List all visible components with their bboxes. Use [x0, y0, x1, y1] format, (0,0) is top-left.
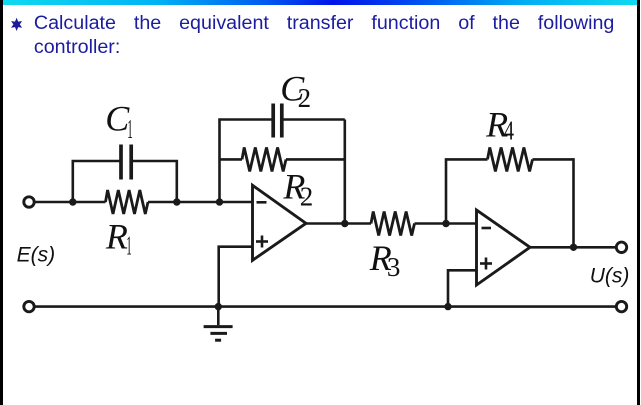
wire: E(s) terminal to R1 network [36, 201, 106, 204]
svg-text:2: 2 [300, 182, 314, 212]
wire: node C riser to R4 branch [446, 159, 488, 223]
node: U2 ground junction [444, 303, 451, 310]
wire: R2 branch right segment [286, 158, 345, 161]
wire: R2 branch left segment [220, 158, 243, 161]
ground bus wire [36, 305, 616, 308]
terminal: U(s) output open circle [616, 242, 626, 252]
title line 2 [34, 35, 120, 59]
U1 non-inverting pin marker [256, 236, 268, 248]
wire: feedback right riser down to U1 output [343, 120, 346, 224]
svg-text:4: 4 [504, 115, 514, 145]
wire: U1 non-inverting input to ground bus [219, 247, 253, 307]
terminal: bottom right open circle [616, 301, 626, 311]
svg-text:1: 1 [127, 114, 133, 144]
capacitor C1 [121, 145, 131, 180]
capacitor C2 [273, 104, 282, 138]
terminal: E(s) input open circle [24, 197, 34, 207]
U2 inverting pin marker [482, 227, 492, 230]
star bullet [11, 18, 22, 31]
node D: U2 output junction [570, 244, 577, 251]
svg-text:E(s): E(s) [17, 243, 56, 266]
label R1 [105, 217, 132, 261]
label C1 [105, 98, 133, 144]
svg-text:2: 2 [298, 83, 312, 113]
wire: U1 output to node B [306, 222, 371, 225]
op-amp U2 [477, 210, 531, 285]
node: junction right of R1 [173, 198, 180, 205]
ground [204, 307, 233, 341]
title line 1 [34, 11, 615, 35]
wire: R3 to U2 inverting input [415, 222, 477, 225]
wire: R1 to node A [148, 201, 253, 204]
terminal: bottom left open circle [24, 301, 34, 311]
top gradient banner [3, 0, 637, 5]
svg-text:3: 3 [387, 252, 401, 282]
U1 inverting pin marker [257, 201, 267, 204]
wire: U2 non-inverting input to ground bus [448, 270, 477, 306]
op-amp U1 [253, 185, 307, 260]
resistor R1 [106, 190, 149, 214]
resistor R2 [242, 147, 286, 171]
label R4 [485, 104, 514, 145]
resistor R3 [371, 212, 415, 236]
node: ground junction [215, 303, 222, 310]
wire: C2 right side to right feedback riser [282, 118, 345, 121]
svg-text:U(s): U(s) [590, 264, 630, 287]
label R3 [369, 238, 401, 282]
svg-text:1: 1 [126, 231, 132, 261]
node B: U1 output junction [341, 220, 348, 227]
wire: node A riser to feedback branches [220, 120, 274, 203]
node A: U1 inverting input node [216, 198, 223, 205]
wire: right side of C1 branch [131, 161, 177, 202]
right black edge strip [637, 0, 640, 405]
svg-text:R: R [105, 217, 128, 257]
wire: left riser of C1 branch [73, 161, 121, 202]
left black edge strip [0, 0, 3, 405]
resistor R4 [488, 147, 533, 171]
label C2 [280, 69, 311, 114]
U2 non-inverting pin marker [480, 258, 492, 270]
label R2 [282, 167, 313, 212]
wire: R4 right riser down to U2 output node [533, 159, 574, 247]
node: junction left of R1 [69, 198, 76, 205]
wire: U2 output to U(s) terminal [530, 246, 615, 249]
node C: U2 inverting input node [442, 220, 449, 227]
